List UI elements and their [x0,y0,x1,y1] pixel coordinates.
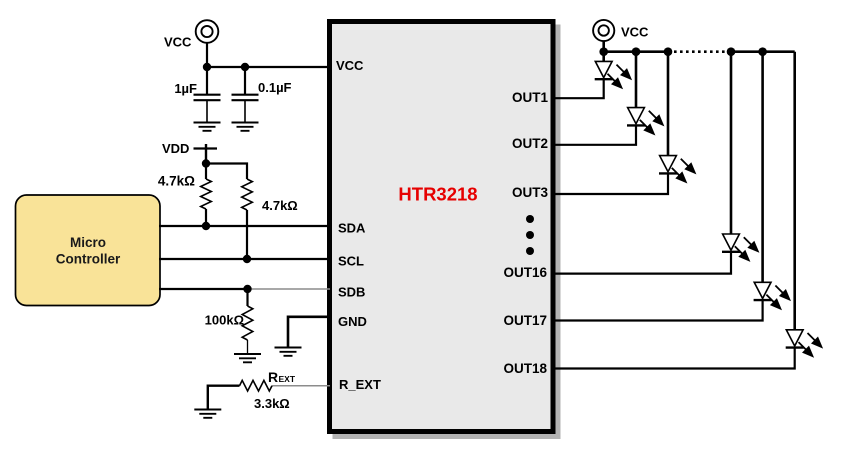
wire: rail to LED D2 [635,52,638,108]
junction dot rail/D17 [758,47,767,56]
wire SCL: MCU to U1 [159,258,330,260]
resistor R2 4.7k (SCL pull-up) [242,179,253,259]
svg-text:SCL: SCL [338,254,364,269]
resistor R3 100k (SDB pull-down) [242,289,253,353]
svg-text:3.3kΩ: 3.3kΩ [254,396,290,411]
junction dot R3/SDB [243,285,251,293]
svg-text:Micro: Micro [70,235,106,250]
wire: R4 left to ground [208,386,240,409]
svg-text:R_EXT: R_EXT [339,377,381,392]
svg-text:SDB: SDB [338,285,365,300]
svg-text:0.1µF: 0.1µF [258,80,292,95]
Micro Controller block [16,195,161,306]
VCC rail (solid right part) [728,50,795,53]
LED D18 [786,330,823,358]
junction dot VDD node [202,159,210,167]
svg-text:VDD: VDD [162,141,189,156]
IC U1 HTR3218 shadow [333,25,561,440]
svg-text:EXT: EXT [279,374,296,384]
svg-text:VCC: VCC [621,25,649,40]
wire: U1 GND pin to ground [288,317,330,347]
wire: R4 to U1 R_EXT pin (thin) [272,385,330,387]
ellipsis dots inside U1 between OUT3 and OUT16 [526,215,534,255]
wire: rail to LED D17 [761,52,764,283]
wire: LED D3 to OUT pin [553,173,668,194]
junction dot rail/D3 [664,47,673,56]
junction dot R2/SCL [243,255,251,263]
LED D17 [754,282,791,310]
ground under C1 [194,123,221,131]
LED D1 [595,61,632,89]
wire SDB: MCU to junction [159,288,248,290]
IC U1 HTR3218 body [330,22,554,432]
VCC terminal (right) [593,20,614,41]
svg-text:100kΩ: 100kΩ [205,313,244,328]
junction dot R1/SDA [202,222,210,230]
VCC terminal (left) [196,20,219,43]
svg-text:OUT3: OUT3 [512,185,548,200]
svg-text:OUT16: OUT16 [503,265,547,280]
wire: right VCC terminal to rail [602,41,605,52]
wire: VDD node to R2 top [206,164,247,180]
wire: LED D17 to OUT pin [553,300,763,320]
resistor R1 4.7k (SDA pull-up) [201,164,212,227]
ground under R3 [234,354,261,362]
svg-text:OUT2: OUT2 [512,136,548,151]
svg-text:VCC: VCC [164,35,192,50]
wire SDB: junction to U1 (thin) [248,288,331,290]
ground at GND pin [275,348,302,356]
LED D2 [627,108,664,136]
svg-text:4.7kΩ: 4.7kΩ [262,198,298,213]
junction dot rail/D2 [632,47,641,56]
wire: rail to LED D1 [602,52,605,62]
svg-text:SDA: SDA [338,221,366,236]
capacitor C2 0.1uF [232,67,259,122]
wire: LED D18 to OUT pin [553,348,795,369]
svg-text:R: R [268,369,278,385]
VDD supply stub [194,144,218,164]
junction dot at C2 [241,63,249,71]
Micro Controller label [56,235,121,267]
svg-text:OUT17: OUT17 [503,313,547,328]
VCC rail (solid left part) [604,50,671,53]
wire: VCC terminal to junction [206,43,208,67]
junction dot rail/D16 [727,47,736,56]
ground at R4 [194,410,221,418]
label R_EXT with subscript [268,369,296,385]
wire: LED D16 to OUT pin [553,252,731,274]
svg-text:Controller: Controller [56,252,121,267]
VCC rail (dotted part) [674,50,728,53]
capacitor C1 1uF [194,67,221,122]
resistor R4 R_EXT 3.3k [240,380,273,391]
svg-text:OUT18: OUT18 [503,361,547,376]
ground under C2 [232,123,259,131]
junction dot rail/D1 [599,47,608,56]
wire: VCC rail to U1 VCC pin [207,66,330,68]
svg-text:OUT1: OUT1 [512,90,548,105]
wire: rail to LED D16 [730,52,733,234]
wire: rail to LED D18 [793,52,796,330]
wire: LED D1 to OUT pin [553,79,604,98]
LED D3 [659,156,696,184]
wire: rail to LED D3 [667,52,670,156]
LED D16 [722,234,759,262]
junction dot at C1 [203,63,211,71]
svg-text:VCC: VCC [336,58,364,73]
wire SDA: MCU to U1 [159,225,330,227]
wire: LED D2 to OUT pin [553,125,636,144]
svg-text:4.7kΩ: 4.7kΩ [158,174,195,189]
svg-text:HTR3218: HTR3218 [398,184,477,205]
svg-text:GND: GND [338,314,367,329]
svg-text:1µF: 1µF [174,81,197,96]
